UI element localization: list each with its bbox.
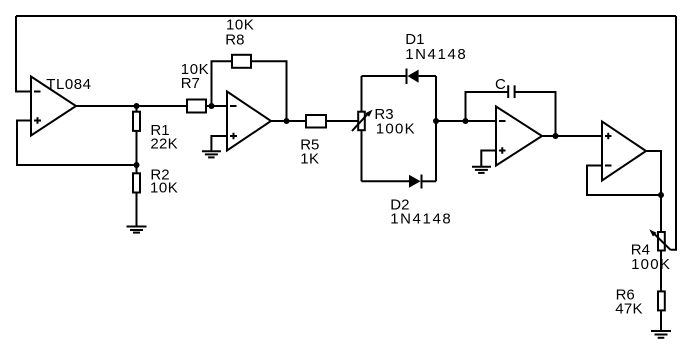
wire top feedback rail: [16, 15, 676, 17]
ground below R6: [651, 331, 671, 338]
resistor R1: [133, 112, 140, 131]
potentiometer R4: [658, 232, 665, 251]
node R1/R2 divider: [134, 162, 140, 168]
diode D1: [406, 69, 408, 85]
svg-text:TL084: TL084: [46, 76, 91, 93]
svg-text:R8: R8: [225, 31, 244, 48]
wire U3 output to U4: [542, 135, 602, 137]
node capacitor branch: [463, 118, 469, 124]
svg-text:10K: 10K: [150, 180, 178, 197]
wire R1 top stub: [136, 106, 138, 112]
wire U4 feedback loop: [587, 166, 661, 196]
wire left rail down to U1 inverting input: [16, 16, 31, 92]
wire network to U3 inverting input: [436, 120, 496, 122]
wire U1 output to R7: [76, 105, 187, 107]
ground below U3: [472, 167, 491, 173]
node U4 output / feedback: [658, 192, 664, 198]
op-amp U1 TL084: [31, 77, 76, 136]
resistor R7: [187, 100, 206, 113]
wire diode network right edge: [435, 76, 437, 181]
svg-text:22K: 22K: [150, 135, 178, 152]
ground below U2: [202, 151, 221, 157]
svg-text:C: C: [495, 76, 506, 93]
wire R5 to R3: [326, 120, 358, 122]
wire R6 to ground: [660, 310, 662, 331]
node R7/R8: [209, 103, 215, 109]
svg-text:1N4148: 1N4148: [390, 210, 452, 227]
svg-text:100K: 100K: [631, 256, 671, 273]
wire R2 bottom to ground: [136, 193, 138, 227]
wire right feedback rail: [671, 16, 677, 250]
potentiometer R3: [361, 76, 363, 111]
wire U4 output down: [646, 151, 661, 232]
op-amp U4: [602, 122, 646, 181]
resistor R6: [658, 291, 665, 310]
diode D2: [409, 175, 421, 188]
svg-text:1N4148: 1N4148: [405, 46, 467, 63]
node U2 output / R8: [284, 118, 290, 124]
op-amp U2: [227, 92, 271, 151]
capacitor C: [507, 85, 509, 98]
wire capacitor branch right: [515, 92, 555, 136]
node network output: [433, 118, 439, 124]
wire U1 non-inverting input loop to divider node: [17, 121, 137, 166]
wire R8 to U2 output node: [251, 61, 287, 121]
wire R7 to U2 inverting input: [206, 105, 227, 107]
resistor R5: [306, 115, 326, 128]
svg-text:47K: 47K: [615, 301, 643, 318]
wire U2 non-inverting input to ground: [211, 136, 227, 151]
resistor R8: [232, 55, 251, 68]
resistor R2: [133, 173, 140, 192]
ground below R2: [127, 227, 147, 233]
node U3 output: [553, 133, 559, 139]
wire R1 bottom to R2 top: [136, 131, 138, 173]
wire R8 branch riser: [212, 61, 233, 106]
wire capacitor branch left: [466, 92, 508, 121]
svg-text:1K: 1K: [300, 150, 319, 167]
wire diode network top branch: [362, 75, 407, 77]
wire U3 non-inverting input to ground: [481, 151, 496, 167]
op-amp U3: [496, 107, 542, 166]
svg-text:100K: 100K: [376, 121, 416, 138]
node U1 output / R1 top: [134, 103, 140, 109]
wire R4 to R6: [660, 251, 662, 292]
wire U2 output to R5: [271, 120, 306, 122]
wire diode network bottom branch: [362, 180, 410, 182]
svg-text:R7: R7: [181, 75, 200, 92]
